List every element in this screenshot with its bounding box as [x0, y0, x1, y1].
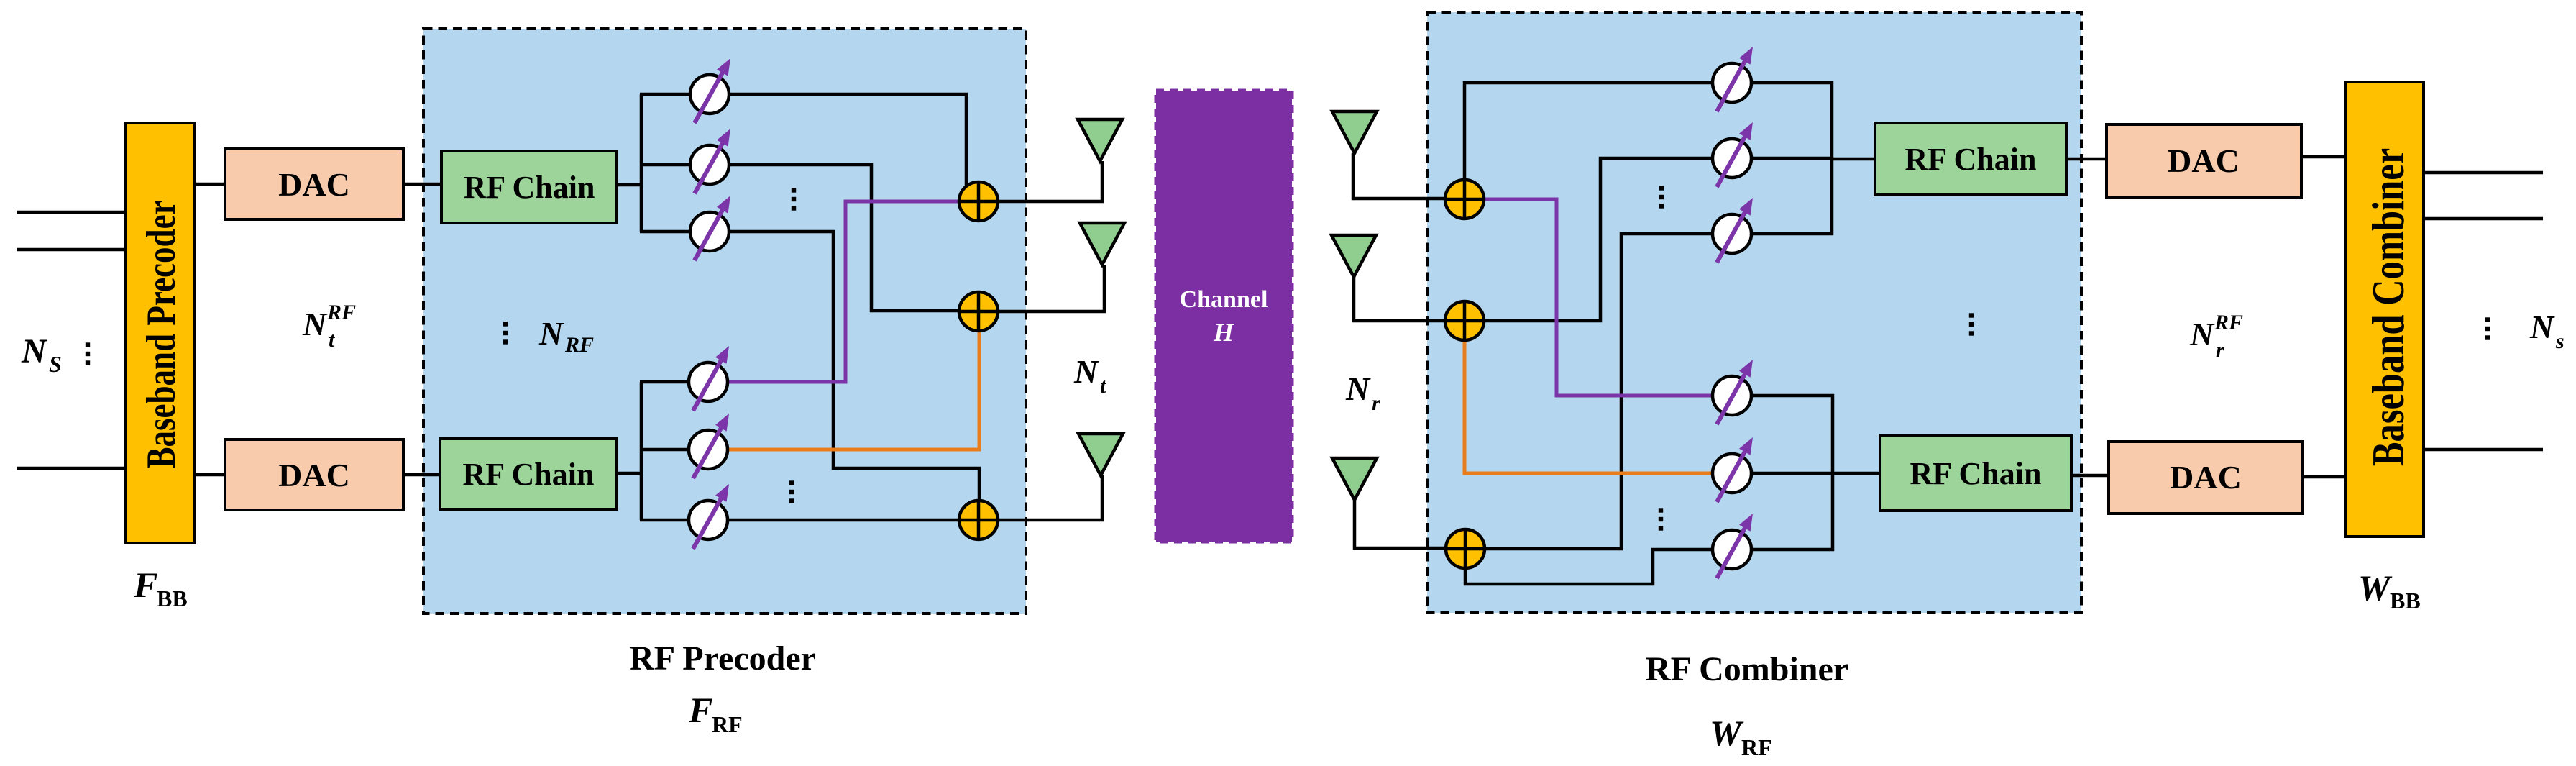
svg-text:H: H: [1213, 318, 1234, 347]
svg-text:N: N: [538, 315, 564, 352]
svg-text:RF: RF: [2214, 311, 2243, 334]
svg-text:Baseband Combiner: Baseband Combiner: [2364, 148, 2414, 466]
svg-text:r: r: [2216, 338, 2224, 362]
svg-text:N: N: [2529, 309, 2555, 345]
svg-text:RF Precoder: RF Precoder: [629, 639, 816, 678]
svg-text:RF Chain: RF Chain: [1910, 456, 2042, 491]
svg-text:N: N: [1345, 370, 1371, 407]
svg-text:DAC: DAC: [2170, 459, 2242, 496]
svg-text:W: W: [1710, 713, 1744, 753]
svg-text:RF: RF: [326, 301, 356, 324]
svg-text:Channel: Channel: [1180, 286, 1268, 313]
svg-text:W: W: [2358, 567, 2393, 608]
svg-text:RF Chain: RF Chain: [1905, 142, 2037, 177]
svg-text:N: N: [21, 332, 48, 370]
svg-text:BB: BB: [157, 585, 188, 611]
svg-text:t: t: [1100, 374, 1107, 398]
svg-text:RF: RF: [1741, 734, 1772, 760]
svg-text:BB: BB: [2390, 588, 2421, 614]
svg-text:RF Combiner: RF Combiner: [1646, 650, 1848, 688]
svg-text:N: N: [1073, 353, 1099, 390]
svg-text:RF Chain: RF Chain: [463, 457, 595, 492]
svg-text:s: s: [2555, 329, 2564, 353]
svg-text:F: F: [688, 690, 712, 730]
svg-text:DAC: DAC: [278, 166, 350, 203]
svg-text:F: F: [133, 565, 157, 605]
svg-text:S: S: [49, 351, 62, 377]
svg-text:N: N: [302, 306, 328, 342]
svg-text:RF: RF: [712, 711, 743, 737]
svg-text:DAC: DAC: [278, 457, 350, 493]
svg-text:Baseband Precoder: Baseband Precoder: [139, 200, 184, 468]
svg-text:DAC: DAC: [2168, 142, 2240, 179]
svg-text:N: N: [2189, 316, 2215, 352]
svg-text:RF Chain: RF Chain: [464, 170, 595, 205]
svg-text:t: t: [329, 328, 336, 352]
svg-text:r: r: [1372, 391, 1380, 415]
svg-text:RF: RF: [564, 333, 594, 357]
